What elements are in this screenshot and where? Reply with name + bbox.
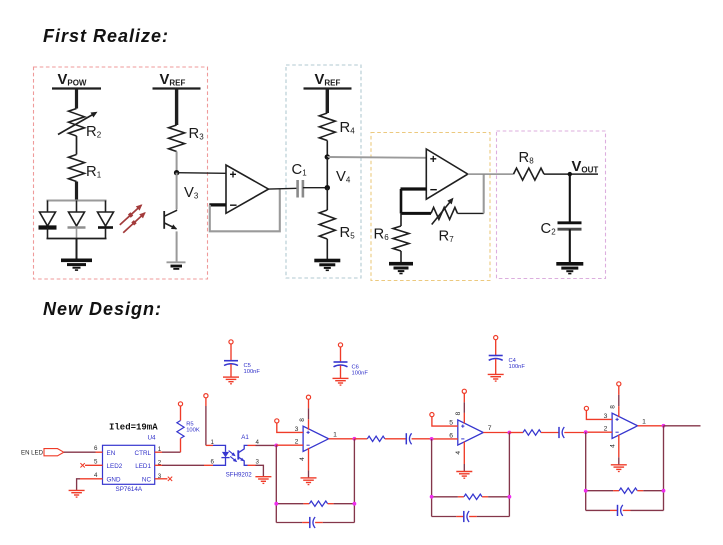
wire: non-inverting input [277, 423, 303, 433]
svg-text:100nF: 100nF [509, 364, 526, 370]
power port (opto pin 1) [204, 394, 208, 398]
power port (pin 8) [462, 389, 466, 393]
svg-text:−: − [230, 198, 238, 213]
wire [326, 157, 328, 188]
svg-text:NC: NC [142, 477, 152, 484]
junction [274, 502, 278, 506]
resistor R3 [169, 125, 205, 152]
ground (C6) [333, 378, 349, 385]
wire: feedback right [508, 433, 510, 517]
wire [400, 251, 402, 262]
IC U4 SP7614A [103, 435, 157, 494]
wire [569, 174, 571, 222]
junction [584, 489, 588, 493]
wire [64, 451, 96, 453]
op-amp stage 1 [303, 426, 329, 451]
ground (R6) [389, 262, 413, 274]
wire: inverting input bar [209, 203, 226, 206]
capacitor C6 [334, 362, 369, 376]
wire [495, 340, 497, 356]
wire [303, 187, 327, 189]
power port (pin 8) [306, 395, 310, 399]
resistor (coupling 2-3) [509, 430, 559, 435]
wire [340, 365, 342, 378]
wire: pin 8 [299, 400, 309, 430]
junction [353, 502, 357, 506]
svg-text:8: 8 [455, 411, 462, 415]
capacitor C5 [224, 361, 260, 375]
power port (non-inverting ref) [275, 419, 279, 423]
svg-text:U4: U4 [148, 435, 157, 442]
svg-text:4: 4 [299, 457, 306, 461]
power port (non-inverting ref) [430, 413, 434, 417]
wire [495, 359, 497, 375]
node V3 [174, 170, 199, 201]
svg-text:4: 4 [455, 451, 462, 455]
op-amp U2 [426, 149, 468, 199]
junction [430, 437, 434, 441]
svg-text:5: 5 [94, 459, 98, 466]
capacitor (feedback, stage 2) [432, 511, 510, 522]
wire [176, 231, 178, 262]
node V4 [325, 169, 351, 190]
ground (U4 GND) [69, 490, 85, 497]
wire: pin 4 [299, 448, 309, 478]
wire [458, 212, 484, 214]
junction [508, 431, 512, 435]
node VOUT [568, 159, 599, 176]
wire [230, 364, 232, 377]
dashed box: gain stage block [371, 133, 490, 281]
svg-text:2: 2 [295, 439, 299, 446]
wire [205, 398, 207, 406]
capacitor (coupling 1-2) [406, 433, 431, 444]
node VREF (divider) [304, 72, 352, 89]
wire [75, 182, 78, 202]
wire [230, 344, 232, 361]
wire: output [638, 418, 664, 426]
LED D1 [39, 201, 57, 239]
ground (C5) [223, 377, 239, 384]
svg-text:6: 6 [449, 432, 453, 439]
wire: inverting input bar U2 [401, 187, 427, 190]
wire [483, 174, 485, 213]
wire: diode bottom bus [47, 238, 107, 240]
wire [76, 136, 78, 155]
svg-text:8: 8 [609, 405, 616, 409]
svg-text:3: 3 [295, 426, 299, 433]
svg-text:New Design:: New Design: [43, 299, 162, 319]
wire [569, 229, 571, 262]
wire [162, 451, 181, 453]
pin 5 (LED2) [80, 459, 102, 468]
wire [400, 189, 403, 213]
pin 6 (EN) [94, 445, 103, 452]
svg-text:4: 4 [94, 472, 98, 479]
resistor (feedback, stage 1) [276, 501, 354, 506]
junction [662, 424, 666, 428]
wire [256, 465, 264, 476]
ground (C2) [556, 262, 583, 274]
svg-text:7: 7 [488, 425, 492, 432]
wire [326, 141, 328, 158]
power port (C6) [338, 343, 342, 347]
wire [544, 173, 598, 175]
dashed box: output filter block [497, 131, 606, 279]
pin 3 (NC) [155, 473, 173, 481]
pin 4 (GND) [80, 472, 103, 479]
ground (stage 3) [611, 465, 627, 472]
svg-text:+: + [230, 168, 237, 182]
wire [176, 173, 178, 210]
wire [76, 239, 78, 260]
capacitor C1 [292, 162, 308, 198]
pin 2 (LED1) [155, 460, 162, 467]
dashed box: V4 divider block [286, 65, 361, 278]
svg-text:4: 4 [609, 444, 616, 448]
resistor R4 [319, 113, 355, 141]
LED D2 [68, 201, 86, 239]
svg-text:3: 3 [604, 413, 608, 420]
wire: output [483, 425, 509, 433]
svg-text:1: 1 [642, 418, 646, 425]
wire [340, 347, 342, 362]
svg-text:LED2: LED2 [107, 463, 123, 470]
svg-text:100nF: 100nF [352, 370, 369, 376]
resistor R8 [514, 150, 545, 180]
wire: feedback loop U1 [210, 189, 280, 231]
wire: diode top bus [47, 200, 107, 202]
power port (non-inverting ref) [584, 406, 588, 410]
wire: non-inverting input [432, 417, 458, 427]
wire [77, 479, 80, 491]
wire: feedback left [431, 439, 433, 517]
wire: inverting input [432, 432, 458, 439]
capacitor (feedback, stage 1) [276, 517, 354, 528]
port EN LED [21, 449, 64, 457]
svg-text:GND: GND [107, 477, 121, 484]
resistor (coupling 1-2) [354, 436, 406, 441]
svg-text:LED1: LED1 [135, 463, 151, 470]
resistor R1 [69, 155, 102, 182]
wire [256, 444, 277, 446]
ground (stage 1) [301, 478, 317, 485]
capacitor C2 [541, 221, 582, 237]
wire: feedback right [663, 426, 665, 511]
junction [584, 430, 588, 434]
node (R4/R5 tap) [325, 154, 330, 159]
dashed box: LED / reference block [34, 67, 208, 279]
svg-text:EN: EN [107, 450, 116, 457]
svg-text:2: 2 [604, 426, 608, 433]
op-amp stage 3 [612, 413, 638, 438]
wire [326, 89, 329, 114]
wire: feedback left [275, 445, 277, 522]
op-amp stage 2 [458, 420, 484, 445]
ground (divider) [314, 259, 340, 271]
wire: pin 4 [455, 442, 465, 472]
svg-text:Iled=19mA: Iled=19mA [109, 423, 158, 433]
resistor R6 [374, 213, 410, 251]
resistor R5 [319, 210, 355, 241]
svg-text:A1: A1 [241, 434, 249, 441]
power port (pin 8) [617, 382, 621, 386]
svg-text:+: + [430, 152, 437, 166]
wire [176, 152, 178, 173]
capacitor C4 [489, 356, 526, 370]
wire: feedback left [585, 432, 587, 510]
svg-text:SP7614A: SP7614A [116, 486, 143, 493]
node VREF (left) [153, 72, 201, 89]
junction [430, 495, 434, 499]
junction [274, 444, 278, 448]
resistor R2 (variable) [58, 109, 102, 141]
wire: pin 8 [455, 394, 465, 424]
wire: feedback right [353, 439, 355, 523]
ground (LED string) [61, 259, 92, 271]
svg-text:6: 6 [94, 445, 98, 452]
junction [508, 495, 512, 499]
svg-text:CTRL: CTRL [135, 450, 152, 457]
wire [162, 464, 204, 466]
wire: inverting input [586, 426, 612, 433]
LED D3 [98, 201, 114, 239]
pin 1 (CTRL) [155, 446, 162, 453]
capacitor (feedback, stage 3) [586, 505, 664, 516]
resistor (feedback, stage 3) [586, 488, 664, 493]
svg-text:8: 8 [299, 418, 306, 422]
resistor R5 100K [177, 406, 200, 452]
svg-text:EN LED: EN LED [21, 449, 44, 456]
wire [326, 188, 328, 210]
ground (stage 2) [456, 472, 472, 479]
svg-text:5: 5 [449, 420, 453, 427]
wire [269, 187, 298, 190]
wire [177, 172, 226, 175]
svg-text:SFH9202: SFH9202 [226, 472, 253, 479]
power port (R5) [178, 402, 182, 406]
phototransistor Q1 [164, 210, 177, 229]
wire [175, 89, 178, 126]
svg-text:−: − [430, 182, 438, 197]
wire: output [329, 431, 355, 439]
wire: non-inverting input [586, 411, 612, 420]
wire: pin 8 [609, 386, 619, 417]
power port (C5) [229, 340, 233, 344]
wire [401, 212, 431, 215]
wire: final output [664, 425, 701, 427]
op-amp U1 [226, 165, 269, 213]
svg-text:First Realize:: First Realize: [43, 26, 169, 46]
ground (phototransistor) [167, 262, 186, 270]
light arrows (LED emission) [120, 204, 146, 233]
wire: pin 4 [609, 435, 619, 465]
svg-text:1: 1 [333, 431, 337, 438]
optocoupler A1 SFH9202 [204, 434, 260, 478]
resistor (feedback, stage 2) [432, 494, 510, 499]
capacitor (coupling 2-3) [559, 427, 586, 438]
wire [327, 156, 426, 159]
resistor R7 (variable) [431, 198, 458, 245]
node VPOW [52, 72, 101, 89]
svg-text:100K: 100K [186, 427, 200, 433]
wire [75, 89, 78, 109]
ground (C4) [488, 374, 504, 381]
power port (C4) [494, 336, 498, 340]
svg-text:100nF: 100nF [244, 369, 261, 375]
wire: inverting input [276, 439, 303, 446]
wire [326, 239, 328, 259]
junction [353, 437, 357, 441]
wire [468, 173, 514, 175]
junction [662, 489, 666, 493]
ground (opto pin 3) [255, 477, 271, 484]
